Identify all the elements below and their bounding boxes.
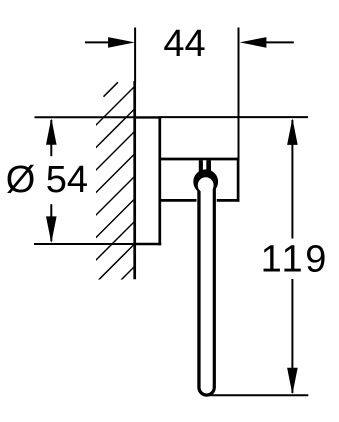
- arrow right-pointing: [108, 37, 135, 48]
- escutcheon front edge: [158, 116, 161, 245]
- arrow up-pointing: [46, 118, 57, 145]
- dimension 44 line right segment: [266, 41, 294, 43]
- dia 54 dimension line lower segment: [50, 204, 52, 241]
- wall line: [133, 81, 136, 279]
- arrow left-pointing: [240, 37, 267, 48]
- pivot stem slot: [203, 160, 206, 170]
- extension line right of dim 44: [238, 28, 240, 159]
- escutcheon top edge: [133, 116, 161, 118]
- holder bracket right edge: [237, 158, 240, 202]
- dim 119 dimension line upper segment: [291, 120, 293, 239]
- paper holder arm outer: [197, 178, 216, 397]
- svg-text:Ø 54: Ø 54: [6, 159, 88, 201]
- pivot ball outer: [193, 169, 218, 194]
- svg-text:44: 44: [163, 23, 205, 65]
- pivot stem black: [199, 160, 211, 173]
- arrow down-pointing: [287, 368, 298, 395]
- arrow up-pointing: [287, 118, 298, 145]
- dia 54 dimension line upper segment: [50, 120, 52, 156]
- extension line left of dim 44 (above wall): [134, 28, 136, 83]
- pivot ball inner: [198, 177, 214, 193]
- extension line bottom of dim 119: [207, 394, 308, 396]
- paper holder arm inner: [201, 184, 213, 393]
- svg-text:119: 119: [261, 239, 329, 281]
- extension line bottom of dia 54: [34, 243, 134, 245]
- holder bracket bottom edge right part: [217, 199, 240, 202]
- dim 119 dimension line lower segment: [291, 279, 293, 393]
- extension line top (shared by dia 54 and dim 119): [35, 116, 135, 118]
- wall hatching: [0, 70, 331, 290]
- arrow down-pointing: [46, 216, 57, 243]
- escutcheon bottom edge: [133, 243, 161, 245]
- dimension 44 line left segment: [85, 41, 110, 43]
- holder bracket top edge: [160, 158, 240, 161]
- holder bracket bottom edge left part: [161, 199, 197, 202]
